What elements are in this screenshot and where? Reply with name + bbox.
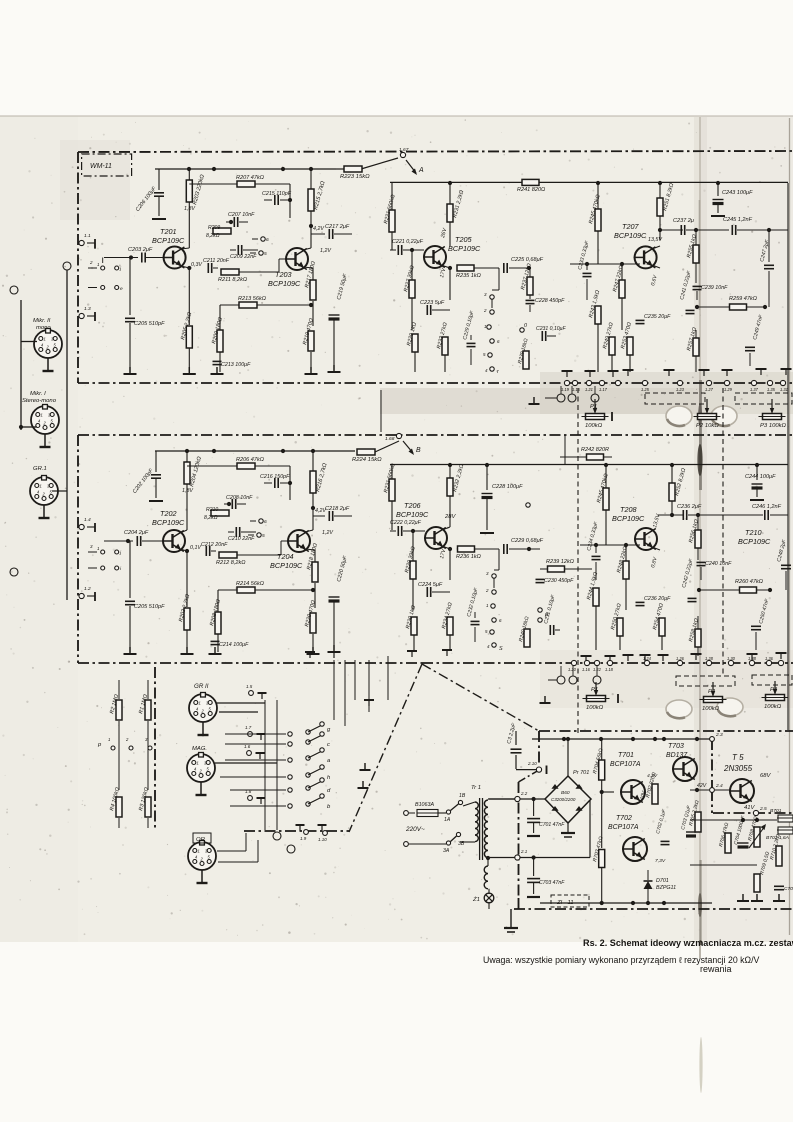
input contacts ch2 <box>101 550 105 554</box>
svg-text:6: 6 <box>266 237 269 243</box>
svg-text:C235 20μF: C235 20μF <box>644 314 671 320</box>
svg-text:Stereo-mono: Stereo-mono <box>22 398 57 404</box>
svg-text:1,8V: 1,8V <box>184 206 195 212</box>
capacitor C239 <box>693 285 702 287</box>
capacitor C704 <box>742 820 744 838</box>
terminal 2.1 <box>515 855 520 860</box>
svg-text:R209: R209 <box>208 225 220 231</box>
wire T703 <box>663 739 665 757</box>
transistor T204 <box>288 530 310 552</box>
wire to P1 <box>545 397 557 399</box>
svg-text:R224 15kΩ: R224 15kΩ <box>352 457 382 463</box>
svg-text:1,2V: 1,2V <box>322 530 333 536</box>
resistor R1 <box>145 700 151 720</box>
capacitor C214 <box>211 634 213 638</box>
resistor R243 <box>595 306 601 324</box>
svg-text:P2: P2 <box>708 689 716 695</box>
switch contact 6 <box>261 237 265 241</box>
capacitor C236b <box>682 510 684 520</box>
capacitor C701 <box>533 799 535 816</box>
svg-text:C237 2μ: C237 2μ <box>673 218 694 224</box>
terminal row block1 bottom <box>78 382 793 384</box>
svg-text:Rs. 2. Schemat ideowy wzmacni: Rs. 2. Schemat ideowy wzmacniacza m.cz. … <box>583 938 793 948</box>
resistor R234 <box>447 617 453 635</box>
svg-text:C213 100μF: C213 100μF <box>221 362 251 368</box>
resistor R708 <box>754 827 760 847</box>
svg-text:R239 12kΩ: R239 12kΩ <box>546 559 575 565</box>
wire T204 base <box>252 554 281 556</box>
svg-text:BCP107A: BCP107A <box>608 824 639 831</box>
lamp Z1 <box>484 893 494 903</box>
mains terminal L2 <box>404 842 409 847</box>
svg-text:C231 0,10μF: C231 0,10μF <box>536 326 566 332</box>
capacitor C230 <box>539 569 541 576</box>
capacitor C218 <box>313 515 325 517</box>
svg-text:1,8V: 1,8V <box>182 488 193 494</box>
wire R242 drop <box>611 457 613 465</box>
capacitor C204 <box>104 540 133 542</box>
terminal 1.68 <box>396 433 401 438</box>
svg-text:C222 0,22μF: C222 0,22μF <box>390 520 422 526</box>
transistor T5 <box>730 779 754 803</box>
svg-text:1: 1 <box>40 484 42 489</box>
resistor R709 <box>754 874 760 892</box>
capacitor C231 <box>520 328 524 332</box>
resistor R252 <box>669 483 675 501</box>
capacitor C249 <box>749 307 751 344</box>
resistor R231b <box>389 479 395 501</box>
module border left block2 <box>77 435 79 663</box>
terminal 2.4 <box>710 788 715 793</box>
capacitor C219 <box>333 234 335 305</box>
capacitor C240b <box>697 561 706 563</box>
svg-text:GR II: GR II <box>194 683 209 690</box>
diagonal border to switch block <box>349 664 422 832</box>
svg-text:6: 6 <box>264 519 267 525</box>
punch hole 2 <box>711 406 737 426</box>
svg-text:1.2: 1.2 <box>84 586 91 592</box>
svg-text:R210: R210 <box>206 507 218 513</box>
resistor R207 <box>237 181 255 187</box>
svg-text:C208 10nF: C208 10nF <box>226 495 253 501</box>
wire T205 emitter <box>441 265 450 268</box>
svg-text:5: 5 <box>262 533 265 539</box>
resistor R206 <box>237 463 255 469</box>
svg-text:C244 100μF: C244 100μF <box>745 474 776 480</box>
mains switch 1A <box>438 812 446 814</box>
svg-text:Pr 701: Pr 701 <box>573 770 589 776</box>
resistor R212 <box>219 552 237 558</box>
heater winding <box>484 866 488 874</box>
wire T701 <box>632 739 634 780</box>
svg-text:T201: T201 <box>160 227 177 236</box>
svg-text:68V: 68V <box>760 773 772 779</box>
psu top border <box>539 730 793 732</box>
resistor R239c <box>548 566 565 572</box>
svg-text:R241 820Ω: R241 820Ω <box>517 187 546 193</box>
svg-text:1.27: 1.27 <box>705 387 714 392</box>
svg-text:1.1: 1.1 <box>84 233 91 239</box>
ground block2 r202 <box>186 647 188 654</box>
fuse B702 <box>778 827 793 834</box>
potentiometer P2 row2 <box>704 697 723 703</box>
resistor R3 <box>145 797 151 817</box>
resistor R249 <box>609 337 615 355</box>
resistor R232 <box>447 478 453 496</box>
wire block1 bottom bus <box>159 300 161 340</box>
svg-text:100kΩ: 100kΩ <box>585 423 603 429</box>
wire T207 emitter <box>652 265 660 268</box>
resistor R229 <box>412 334 418 352</box>
svg-text:1.36: 1.36 <box>765 656 774 661</box>
resistor R260 <box>740 587 757 593</box>
svg-text:2.5: 2.5 <box>759 806 767 812</box>
resistor R703 <box>599 850 605 868</box>
svg-text:28V: 28V <box>444 514 457 520</box>
transistor T206 <box>425 527 447 549</box>
svg-text:B1063A: B1063A <box>415 802 434 808</box>
svg-text:2.2: 2.2 <box>520 791 528 796</box>
svg-text:Tr 1: Tr 1 <box>471 785 481 791</box>
switch contacts ch2 tone <box>492 574 496 578</box>
svg-text:1.38: 1.38 <box>748 656 757 661</box>
terminal 1.5 <box>258 692 267 694</box>
svg-text:8,2kΩ: 8,2kΩ <box>206 233 220 239</box>
psu top rail <box>532 738 712 740</box>
resistor R255 <box>693 245 699 263</box>
ground block1 c205 <box>129 367 131 374</box>
input ring L <box>10 286 18 294</box>
svg-text:GR.1: GR.1 <box>33 466 47 472</box>
svg-text:BCP107A: BCP107A <box>610 761 641 768</box>
resistor R208b <box>217 330 223 352</box>
transistor T701 <box>621 780 645 804</box>
svg-text:C204 2μF: C204 2μF <box>124 530 149 536</box>
resistor R210 <box>211 510 229 516</box>
resistor R220 <box>310 613 316 633</box>
svg-text:P2 10kΩ: P2 10kΩ <box>696 423 719 429</box>
capacitor C212 <box>205 546 207 556</box>
svg-text:1.9: 1.9 <box>300 836 307 841</box>
scan speckle noise <box>257 243 259 245</box>
capacitor C205 <box>129 258 131 316</box>
resistor R257 <box>693 338 699 356</box>
wire rail to R223 <box>336 168 345 170</box>
capacitor C702 <box>664 830 666 838</box>
resistor R705 <box>695 812 701 832</box>
svg-text:Ż1: Ż1 <box>472 896 480 903</box>
page top edge <box>0 115 793 117</box>
svg-text:0: 0 <box>524 323 527 329</box>
transistor T208 <box>635 528 657 550</box>
wires tone ch1 <box>499 289 520 291</box>
wire emitter bus ch2 <box>186 584 188 607</box>
capacitor C225 <box>503 263 505 273</box>
svg-text:0,1V: 0,1V <box>190 545 201 551</box>
terminal row block2 bottom <box>78 662 422 664</box>
svg-text:ZI - 11: ZI - 11 <box>556 900 574 906</box>
svg-text:rewania: rewania <box>700 964 731 974</box>
module border left block1 <box>77 152 79 383</box>
svg-text:C703 47nF: C703 47nF <box>539 880 565 886</box>
capacitor C222 <box>390 530 396 532</box>
svg-text:C701 47nF: C701 47nF <box>539 822 565 828</box>
psu out rail <box>690 819 777 821</box>
svg-text:1.24: 1.24 <box>643 656 652 661</box>
dashed rect P3 row2 <box>752 675 792 685</box>
svg-text:B: B <box>416 447 421 454</box>
terminal 2.3 <box>710 737 715 742</box>
svg-text:1.35: 1.35 <box>767 387 776 392</box>
svg-text:220V~: 220V~ <box>405 826 425 833</box>
svg-text:h: h <box>327 775 330 781</box>
dashed rect P3 row1 <box>735 393 792 404</box>
svg-text:1.30: 1.30 <box>727 656 736 661</box>
svg-text:C205 510pF: C205 510pF <box>134 604 165 610</box>
svg-text:B60: B60 <box>561 790 570 796</box>
ground sw 3 <box>362 781 364 788</box>
psu grounds <box>742 894 744 901</box>
wire emitter bus ch1 <box>188 300 190 325</box>
mains terminal L <box>404 811 409 816</box>
resistor R4 <box>116 797 122 817</box>
svg-text:C216 150pF: C216 150pF <box>260 474 290 480</box>
ground block2 c214 <box>214 647 216 654</box>
svg-text:1,2V: 1,2V <box>320 248 331 254</box>
resistor R221 <box>389 210 395 232</box>
transistor T202 <box>163 530 185 552</box>
terminal 2.5 <box>753 810 758 815</box>
resistor R248 <box>623 561 629 579</box>
svg-text:C224 5μF: C224 5μF <box>418 582 443 588</box>
resistor R259 <box>730 304 747 310</box>
wire T702 <box>614 848 627 850</box>
svg-text:C236 2μF: C236 2μF <box>677 504 702 510</box>
svg-text:7,3V: 7,3V <box>655 858 666 864</box>
wire T203 base <box>252 271 279 273</box>
svg-text:T208: T208 <box>620 505 637 514</box>
psu bottom border <box>514 908 793 910</box>
resistor R209 <box>213 228 231 234</box>
diagonal border to psu block <box>422 664 539 731</box>
wire T204 collector <box>305 530 313 532</box>
capacitor C235 <box>639 313 641 318</box>
page fold line <box>699 117 701 958</box>
terminal 2.2 <box>515 796 520 801</box>
svg-text:R214 56kΩ: R214 56kΩ <box>236 581 265 587</box>
svg-text:1A: 1A <box>444 817 451 823</box>
resistor R250 <box>617 618 623 636</box>
capacitor C219b <box>470 335 472 340</box>
svg-text:BCP109C: BCP109C <box>448 244 481 253</box>
svg-text:3A: 3A <box>443 848 450 854</box>
diode D701 <box>647 870 649 880</box>
resistor R208c <box>215 612 221 634</box>
potentiometer P2 row1 <box>698 414 717 420</box>
capacitor C215 <box>264 199 272 201</box>
svg-text:Mikr. I: Mikr. I <box>30 391 46 397</box>
switch block left border <box>154 667 156 831</box>
resistor R235b <box>457 265 474 271</box>
svg-text:100kΩ: 100kΩ <box>702 706 720 712</box>
power rail block2 <box>155 450 336 452</box>
svg-text:mono: mono <box>36 325 51 331</box>
long dashed vertical 1 <box>577 388 579 735</box>
resistor R246 <box>603 488 609 510</box>
ground block2 c220 <box>333 645 335 652</box>
transistor T201 <box>164 247 186 269</box>
svg-text:C230 450pF: C230 450pF <box>544 578 574 584</box>
svg-text:P3 100kΩ: P3 100kΩ <box>760 423 787 429</box>
svg-text:1.37: 1.37 <box>750 387 759 392</box>
vertical wires col3 <box>564 435 566 464</box>
svg-text:1.21: 1.21 <box>585 387 593 392</box>
resistor R239b <box>523 351 529 369</box>
svg-text:T205: T205 <box>455 235 473 244</box>
terminal bars above row1 <box>562 370 573 372</box>
wire R207 row <box>189 183 237 185</box>
svg-text:MAG.: MAG. <box>192 746 207 752</box>
capacitor C238b <box>639 596 641 600</box>
capacitor C223 <box>412 309 424 311</box>
terminal circles row1 <box>564 380 569 385</box>
wire R206 row <box>187 465 237 467</box>
capacitor C224 <box>413 591 424 593</box>
svg-text:C217 2μF: C217 2μF <box>325 224 350 230</box>
svg-text:BCP109C: BCP109C <box>612 514 645 523</box>
svg-text:C245 1,2nF: C245 1,2nF <box>723 217 753 223</box>
capacitor C228b <box>486 465 488 490</box>
capacitor C246 <box>764 510 766 520</box>
svg-text:1.23: 1.23 <box>676 387 685 392</box>
ground below psu <box>510 909 512 928</box>
wire T208 emitter <box>652 547 660 550</box>
ground block1 c219 <box>333 365 335 372</box>
capacitor C248 <box>787 515 789 560</box>
long dashed vertical 2 <box>722 388 724 675</box>
resistor R223 <box>344 166 362 172</box>
svg-text:T203: T203 <box>275 270 292 279</box>
resistor R256 <box>695 530 701 548</box>
svg-text:1.17: 1.17 <box>599 387 608 392</box>
ground block1 c213 <box>216 367 218 374</box>
capacitor C237 <box>680 225 682 235</box>
module border top rail <box>78 151 793 152</box>
capacitor C220 <box>333 516 335 587</box>
svg-text:C223 5μF: C223 5μF <box>420 300 445 306</box>
capacitor C207 <box>233 217 235 227</box>
capacitor C234 <box>595 545 597 553</box>
resistor R204 <box>184 462 190 484</box>
capacitor C247 <box>768 230 770 262</box>
terminal 2.10 <box>536 767 541 772</box>
terminal 1.2 <box>79 593 84 598</box>
mains switch 3A <box>446 841 450 845</box>
svg-text:A: A <box>418 167 424 174</box>
resistor R224 <box>357 449 375 455</box>
capacitor C233 <box>586 264 588 270</box>
connector Mikr I <box>31 406 59 434</box>
power rail t205 <box>390 181 788 183</box>
svg-text:BCP109C: BCP109C <box>152 236 185 245</box>
capacitor C3 <box>515 731 517 745</box>
svg-text:1.5: 1.5 <box>246 684 253 689</box>
capacitor C210 <box>235 527 237 537</box>
transistor T205 <box>424 246 446 268</box>
svg-text:1.16: 1.16 <box>582 667 591 672</box>
svg-text:C228 450pF: C228 450pF <box>535 298 565 304</box>
psu left border <box>538 731 540 766</box>
transistor T702 <box>623 837 647 861</box>
svg-text:1: 1 <box>199 701 201 706</box>
ZI-11 box <box>551 895 589 907</box>
svg-text:BCP109C: BCP109C <box>268 279 301 288</box>
psu bottom rail <box>540 902 712 904</box>
ground row2 left <box>548 679 557 681</box>
capacitor C232 <box>474 612 476 618</box>
svg-text:R235 1kΩ: R235 1kΩ <box>456 273 482 279</box>
svg-text:T 5: T 5 <box>732 753 744 762</box>
svg-text:2.1: 2.1 <box>520 849 528 854</box>
power rail t206 <box>390 464 788 466</box>
svg-text:T210: T210 <box>745 528 762 537</box>
capacitor C229b <box>503 544 505 554</box>
power rail block1 <box>155 168 336 170</box>
svg-text:C243 100μF: C243 100μF <box>722 190 753 196</box>
input bus wires <box>66 270 68 600</box>
svg-text:C211 20nF: C211 20nF <box>203 258 230 264</box>
psu mid rail <box>690 864 757 866</box>
resistor R241 <box>522 179 539 185</box>
capacitor C250 <box>755 590 757 623</box>
svg-text:5: 5 <box>264 251 267 257</box>
resistor R219 <box>308 331 314 351</box>
svg-text:R223 15kΩ: R223 15kΩ <box>340 174 370 180</box>
input contacts ch1 <box>101 266 105 270</box>
svg-text:T701: T701 <box>618 752 634 759</box>
wire rail to R224 <box>336 450 355 452</box>
svg-text:C246 1,2nF: C246 1,2nF <box>752 504 782 510</box>
svg-text:1.19: 1.19 <box>561 387 570 392</box>
resistor R704 <box>599 760 605 780</box>
svg-text:T207: T207 <box>622 222 640 231</box>
psu right inner border <box>711 739 713 790</box>
junction rings row2 <box>557 676 565 684</box>
svg-text:1.10: 1.10 <box>318 837 327 842</box>
svg-text:1: 1 <box>197 761 199 766</box>
svg-text:R212 8,2kΩ: R212 8,2kΩ <box>216 560 246 566</box>
svg-text:41V: 41V <box>744 805 756 811</box>
resistor R229b <box>410 561 416 579</box>
capacitor C209 <box>237 245 239 255</box>
svg-text:BCP109C: BCP109C <box>738 537 771 546</box>
terminal 1.8 <box>257 797 266 799</box>
switch block bottom border <box>244 830 349 832</box>
potentiometer P3 row2 <box>766 695 785 701</box>
svg-text:C218 2μF: C218 2μF <box>325 506 350 512</box>
capacitor C216 <box>264 482 272 484</box>
svg-text:T702: T702 <box>616 815 632 822</box>
svg-text:2.10: 2.10 <box>527 761 537 766</box>
capacitor C244 <box>756 465 758 480</box>
wire T202 collector <box>180 530 187 533</box>
svg-text:1B: 1B <box>459 793 466 799</box>
svg-text:R260 47kΩ: R260 47kΩ <box>735 579 764 585</box>
capacitor C245 <box>731 225 733 235</box>
svg-text:2: 2 <box>89 260 93 265</box>
capacitor C705 <box>774 885 784 887</box>
resistor R213 <box>239 302 257 308</box>
